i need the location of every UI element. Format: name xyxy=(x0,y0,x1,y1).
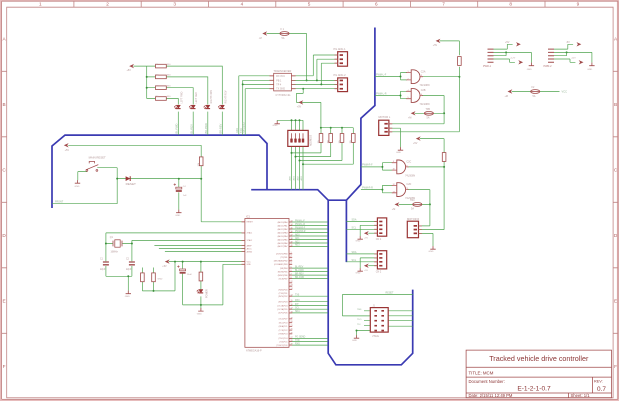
wire PWR1 +5V xyxy=(494,44,513,49)
wire CN1 +5V xyxy=(368,232,377,234)
svg-text:8: 8 xyxy=(509,2,512,7)
svg-text:7: 7 xyxy=(291,274,292,276)
supply arrow -5V PWR2 xyxy=(577,42,582,46)
resistor R1 xyxy=(156,64,167,68)
svg-text:ATMEGA16-P: ATMEGA16-P xyxy=(246,349,262,352)
svg-text:TXD: TXD xyxy=(295,340,300,342)
svg-text:Sheet: 1/1: Sheet: 1/1 xyxy=(571,393,591,398)
svg-text:4: 4 xyxy=(408,90,409,92)
supply arrow +12V PWR2 xyxy=(579,60,584,64)
wire resistor R3 to LED2 column xyxy=(147,88,194,105)
svg-text:RIGHT REV: RIGHT REV xyxy=(224,90,227,103)
svg-text:PWR-2: PWR-2 xyxy=(544,65,553,68)
svg-text:PG ANG 2: PG ANG 2 xyxy=(334,73,347,77)
svg-text:MOTOR L: MOTOR L xyxy=(379,115,391,119)
wire MOTOR R pin3 to ground xyxy=(419,233,434,246)
svg-text:GND: GND xyxy=(396,152,401,154)
svg-text:1uF: 1uF xyxy=(183,195,187,197)
svg-text:LEFT FWD: LEFT FWD xyxy=(180,91,183,103)
wire CN2 SCL xyxy=(346,261,377,263)
resistor R2 xyxy=(156,75,167,79)
svg-text:CYTXRX2.4G: CYTXRX2.4G xyxy=(276,94,291,97)
svg-text:SCL: SCL xyxy=(352,227,357,230)
gate C2D xyxy=(392,183,409,197)
bus: right riser xyxy=(346,28,375,201)
wire C4 cap to ground xyxy=(178,179,180,210)
connector CN2 xyxy=(374,251,386,269)
wire DIP common ground row xyxy=(277,120,303,130)
wire transceiver left row3 xyxy=(243,83,274,85)
svg-text:27: 27 xyxy=(291,337,293,339)
svg-text:BR-REV: BR-REV xyxy=(295,273,304,275)
svg-text:10: 10 xyxy=(393,169,395,171)
svg-text:AVCC: AVCC xyxy=(247,247,253,250)
svg-text:(TDI)PC5: (TDI)PC5 xyxy=(279,341,287,343)
svg-text:CN 1: CN 1 xyxy=(376,238,382,241)
svg-text:GND: GND xyxy=(429,251,434,253)
wire JTAG ground xyxy=(357,331,371,336)
svg-text:18: 18 xyxy=(291,311,293,313)
svg-text:TR5: TR5 xyxy=(426,108,431,111)
svg-text:36: 36 xyxy=(291,231,293,233)
svg-text:AREF: AREF xyxy=(247,244,253,247)
wire fuse TR5 xyxy=(415,112,444,114)
crystal Q1 xyxy=(113,240,122,247)
wire transceiver row1 to PG ANG 1 pin1 xyxy=(291,55,337,76)
wire PWR2 ground xyxy=(554,52,592,62)
svg-text:29: 29 xyxy=(291,344,293,346)
connector MOTOR R xyxy=(407,221,422,238)
svg-text:TR4: TR4 xyxy=(410,199,415,202)
svg-text:GND: GND xyxy=(175,215,180,217)
wire gate C2A output to MOTOR L pin3 xyxy=(389,77,460,132)
wire pull-up pair to rail xyxy=(142,262,175,291)
svg-text:BL-REV: BL-REV xyxy=(189,124,193,134)
svg-text:GND: GND xyxy=(75,186,80,188)
svg-text:19: 19 xyxy=(291,317,293,319)
svg-text:8: 8 xyxy=(406,165,407,167)
svg-text:5A: 5A xyxy=(533,95,536,98)
svg-text:6: 6 xyxy=(421,94,422,96)
svg-text:10uF: 10uF xyxy=(187,274,193,276)
svg-text:Document Number:: Document Number: xyxy=(469,379,505,384)
svg-text:JTAG: JTAG xyxy=(372,334,379,338)
svg-text:35: 35 xyxy=(291,227,293,229)
wire LED outputs to bus BL-FWD BL-REV BR-FWD BR-REV xyxy=(178,112,222,136)
svg-text:-M: -M xyxy=(259,37,262,40)
svg-text:(ADC0)PA0: (ADC0)PA0 xyxy=(278,221,288,224)
svg-text:(TXD)PD1: (TXD)PD1 xyxy=(279,293,288,295)
svg-text:RIGHT FWD: RIGHT FWD xyxy=(210,90,213,104)
svg-text:AD1: AD1 xyxy=(295,237,300,240)
wire PWR2 +12V xyxy=(554,59,575,62)
wire R8 power LED branch xyxy=(200,262,202,305)
svg-text:5: 5 xyxy=(291,267,292,269)
svg-text:TDI: TDI xyxy=(357,324,361,326)
resistor R3 xyxy=(156,86,167,90)
resistor R10 address pull-up 2 xyxy=(329,134,333,143)
svg-text:RESET: RESET xyxy=(247,222,254,224)
svg-text:PG SEND: PG SEND xyxy=(295,337,306,339)
svg-text:SDA: SDA xyxy=(352,219,357,222)
DIP switch S2 xyxy=(288,130,308,146)
wire resistor R4 to LED1 column xyxy=(147,99,179,105)
svg-text:(OC0/AIN1)PB3: (OC0/AIN1)PB3 xyxy=(274,263,287,266)
svg-text:+5V: +5V xyxy=(65,149,70,152)
svg-text:TX GND: TX GND xyxy=(276,89,285,91)
wire crystal taps xyxy=(106,243,132,245)
svg-text:5A: 5A xyxy=(427,117,430,120)
svg-text:POWER: POWER xyxy=(206,289,208,298)
svg-text:3: 3 xyxy=(421,75,422,77)
LED RIGHT REV xyxy=(218,105,225,109)
wire AVCC xyxy=(159,248,245,250)
svg-text:0.7: 0.7 xyxy=(597,386,606,393)
svg-text:11: 11 xyxy=(406,188,408,190)
svg-text:RESET: RESET xyxy=(386,292,395,295)
connector CN1 xyxy=(374,218,386,236)
svg-text:Tracked vehicle drive controll: Tracked vehicle drive controller xyxy=(489,354,589,363)
svg-text:(ICP1)PD6: (ICP1)PD6 xyxy=(278,313,287,315)
svg-text:INT: INT xyxy=(295,304,299,306)
IC2 AVR microcontroller xyxy=(242,219,293,348)
svg-text:GND: GND xyxy=(527,69,532,71)
wire +5V pull-up at C2A xyxy=(440,41,460,77)
svg-text:-5V: -5V xyxy=(566,41,570,44)
svg-text:+5V: +5V xyxy=(413,142,418,145)
svg-text:(OC1A)PD5: (OC1A)PD5 xyxy=(277,308,287,311)
svg-text:1: 1 xyxy=(291,252,292,254)
svg-text:9: 9 xyxy=(393,161,394,163)
resistor R13 C2A pull-up xyxy=(458,57,462,66)
connector PG ANG 2 xyxy=(335,78,348,92)
svg-text:2: 2 xyxy=(408,78,409,80)
svg-text:7: 7 xyxy=(442,2,445,7)
svg-text:(INT2/AIN0)PB2: (INT2/AIN0)PB2 xyxy=(274,260,288,263)
wire AGND xyxy=(165,251,245,253)
wire XTAL1 xyxy=(106,233,245,276)
svg-text:VCC: VCC xyxy=(247,261,252,263)
LED POWER xyxy=(197,290,204,294)
ground sym PWR1 xyxy=(529,63,534,66)
wire CN2 ground xyxy=(360,258,377,268)
svg-text:F: F xyxy=(3,364,6,369)
svg-text:TITLE: MCM: TITLE: MCM xyxy=(469,371,494,376)
svg-text:SDA: SDA xyxy=(352,251,357,254)
svg-text:6: 6 xyxy=(291,270,292,272)
svg-text:BL-FWD: BL-FWD xyxy=(174,123,178,133)
wire PWR1 pin3 xyxy=(494,52,507,55)
svg-text:28: 28 xyxy=(291,340,293,342)
wire XTAL2 xyxy=(132,240,245,276)
svg-text:(INT1)PD3: (INT1)PD3 xyxy=(278,302,287,304)
svg-text:39: 39 xyxy=(291,241,293,243)
wire crystal cap ground xyxy=(106,276,132,291)
ground sym PWR2 xyxy=(589,63,594,66)
wire RESET net to JTAG bus xyxy=(342,295,412,316)
svg-text:5A: 5A xyxy=(282,37,285,40)
ground sym power LED xyxy=(198,308,203,311)
svg-text:1: 1 xyxy=(408,71,409,73)
svg-text:4: 4 xyxy=(291,263,292,265)
svg-text:2: 2 xyxy=(291,256,292,258)
svg-text:(TDO)PC4: (TDO)PC4 xyxy=(278,338,287,340)
svg-text:TDO: TDO xyxy=(357,319,362,321)
svg-text:(MOSI)PB5: (MOSI)PB5 xyxy=(278,271,288,273)
wire gate C2C output to MOTOR R pin2 xyxy=(408,167,445,230)
bus: main left loop xyxy=(52,135,267,208)
svg-text:1: 1 xyxy=(39,2,42,7)
svg-text:37: 37 xyxy=(291,234,293,236)
svg-text:TRANSCEIVER: TRANSCEIVER xyxy=(274,70,292,73)
svg-text:38: 38 xyxy=(291,238,293,240)
wire gate C2B input PWM-L-R xyxy=(375,91,407,98)
wire CN2 SDA xyxy=(346,253,377,255)
title block xyxy=(466,350,611,398)
svg-text:(ADC2)PA2: (ADC2)PA2 xyxy=(278,228,288,231)
wire JTAG left stubs xyxy=(364,311,370,326)
LED LEFT FWD xyxy=(174,105,181,109)
wire CN1 ground xyxy=(360,225,377,236)
svg-text:GND: GND xyxy=(197,314,202,316)
svg-text:TX0: TX0 xyxy=(295,295,300,297)
svg-text:5A: 5A xyxy=(411,208,414,211)
connector PWR2 pins xyxy=(548,49,554,62)
svg-text:+M: +M xyxy=(408,117,411,120)
svg-text:5: 5 xyxy=(308,2,311,7)
junction dots reset row xyxy=(116,178,118,180)
resistor R6 pull-up xyxy=(141,273,145,282)
svg-text:BR-REV: BR-REV xyxy=(218,123,222,133)
svg-text:BR-FWD: BR-FWD xyxy=(295,277,305,279)
wire JTAG right rows to bus xyxy=(388,311,413,326)
svg-text:(INT0)PD2: (INT0)PD2 xyxy=(278,296,287,298)
svg-text:(ADC5)PA5: (ADC5)PA5 xyxy=(278,238,288,241)
svg-text:+M: +M xyxy=(505,95,508,98)
svg-text:+5V: +5V xyxy=(433,44,438,47)
fuse F1 xyxy=(280,32,289,36)
wire FRONT loop xyxy=(52,179,117,204)
svg-text:6: 6 xyxy=(375,2,378,7)
wire AVR GND pin xyxy=(223,264,245,305)
wire gate C2B output to MOTOR L pin1 xyxy=(389,96,444,124)
connector PWR1 pins xyxy=(488,49,494,62)
svg-text:26: 26 xyxy=(291,332,293,334)
svg-text:+5V: +5V xyxy=(364,238,368,240)
wire AVR PB rows to bus xyxy=(289,268,328,279)
switch S1 MAIN RESET xyxy=(86,162,98,172)
svg-text:GND: GND xyxy=(247,264,252,266)
svg-text:PWM-R-R: PWM-R-R xyxy=(362,186,373,189)
svg-text:ADDRESS: ADDRESS xyxy=(310,134,313,146)
supply arrow -M at F1 xyxy=(262,31,267,35)
resistor R5 reset pull-up xyxy=(199,157,203,166)
svg-text:GND: GND xyxy=(352,340,357,342)
svg-text:(XCK/T0)PB0: (XCK/T0)PB0 xyxy=(276,254,287,256)
svg-text:14: 14 xyxy=(291,295,293,297)
ground sym MOTOR L xyxy=(398,147,403,150)
svg-text:3: 3 xyxy=(173,2,176,7)
svg-text:20: 20 xyxy=(291,321,293,323)
svg-text:XTAL1: XTAL1 xyxy=(247,232,253,235)
svg-text:C2C: C2C xyxy=(406,161,411,164)
capacitor C1 xyxy=(103,262,109,265)
junction dots LED rail xyxy=(146,76,148,78)
wire C3 branch xyxy=(182,262,184,305)
wire pull-up resistor drops xyxy=(292,128,354,165)
wire +5V to LED resistor rail xyxy=(133,66,146,98)
wire VCC +5V row xyxy=(169,261,245,263)
svg-text:40: 40 xyxy=(291,245,293,247)
AVR pin numbers right xyxy=(291,220,293,345)
svg-text:GND: GND xyxy=(273,125,278,127)
svg-text:AD2: AD2 xyxy=(295,240,300,243)
svg-text:21: 21 xyxy=(291,325,293,327)
svg-text:AD0: AD0 xyxy=(295,233,300,236)
supply arrow +5V C2A xyxy=(436,39,441,43)
svg-text:RX0: RX0 xyxy=(295,300,300,302)
wire transceiver left row1 xyxy=(239,76,274,135)
wire PWR1 ground xyxy=(494,52,532,62)
svg-text:+5V: +5V xyxy=(162,265,167,268)
svg-text:RXD: RXD xyxy=(295,343,300,345)
svg-text:PWM-R-R: PWM-R-R xyxy=(295,231,306,233)
wire AVR PA rows to bus xyxy=(289,222,328,246)
svg-text:TMS: TMS xyxy=(357,309,362,311)
svg-text:CN 2: CN 2 xyxy=(376,271,382,274)
svg-text:(TMS)PC3: (TMS)PC3 xyxy=(278,334,287,336)
ground sym transceiver xyxy=(275,121,280,124)
wire gate C2C input PWM-R-F xyxy=(361,163,393,170)
wire AREF xyxy=(154,245,245,247)
resistor R4 xyxy=(156,97,167,101)
LED RIGHT FWD xyxy=(203,105,210,109)
svg-text:FRONT: FRONT xyxy=(55,200,64,203)
svg-text:16: 16 xyxy=(291,304,293,306)
svg-text:22: 22 xyxy=(291,281,293,283)
supply arrow +12V PWR1 xyxy=(518,60,523,64)
wire transceiver row4 to PG ANG 2 pin3 xyxy=(291,88,337,90)
wire +5V to C2C pull-up xyxy=(420,139,444,167)
svg-text:PWR-1: PWR-1 xyxy=(483,65,492,68)
supply arrow +5V reset xyxy=(64,143,69,147)
connector MOTOR L xyxy=(379,120,393,135)
svg-text:22pF: 22pF xyxy=(126,269,132,271)
wire PWR1 +12V xyxy=(494,59,515,62)
capacitor C3 electrolytic xyxy=(177,265,185,272)
svg-text:+5V: +5V xyxy=(505,41,510,44)
svg-text:GND: GND xyxy=(125,296,130,298)
svg-text:22pF: 22pF xyxy=(100,269,106,271)
gate pin numbers xyxy=(393,71,422,193)
connector PG ANG 1 xyxy=(335,52,348,66)
svg-text:VCC: VCC xyxy=(562,90,568,94)
svg-text:XTAL2: XTAL2 xyxy=(247,239,253,242)
supply arrow +5V CN1 xyxy=(364,231,369,235)
wire transceiver left row4 xyxy=(245,89,274,135)
svg-text:(SS)PB4: (SS)PB4 xyxy=(280,268,287,270)
wire gate C2D output to MOTOR R pin1 xyxy=(408,190,430,226)
supply arrow +5V C2C xyxy=(416,136,421,140)
svg-text:+12V: +12V xyxy=(510,57,516,59)
resistor R8 power LED xyxy=(199,272,203,281)
supply arrow +5V AVR VCC xyxy=(165,259,170,263)
svg-text:(RXD)PD0: (RXD)PD0 xyxy=(278,289,287,291)
svg-text:(ADC6)PA6: (ADC6)PA6 xyxy=(278,242,288,245)
svg-text:BL-FWD: BL-FWD xyxy=(295,270,304,272)
diode D1 RESET xyxy=(126,176,131,181)
svg-text:PG ANG 1: PG ANG 1 xyxy=(334,47,347,51)
wire +5V to reset pull-up R5 xyxy=(68,145,201,178)
svg-text:GND: GND xyxy=(587,69,592,71)
wire AVR PD rows to bus xyxy=(289,338,328,345)
svg-text:PWM-L-F: PWM-L-F xyxy=(295,220,305,222)
ground sym crystal xyxy=(126,291,131,294)
svg-text:RX-SEND: RX-SEND xyxy=(242,122,245,133)
ground sym reset switch xyxy=(75,180,80,183)
wire DIP outputs to bus AD0-AD3 xyxy=(292,146,304,189)
svg-text:(TCK)PC2: (TCK)PC2 xyxy=(279,330,288,332)
svg-text:34: 34 xyxy=(291,224,293,226)
svg-text:+5V: +5V xyxy=(297,105,302,108)
LED LEFT REV xyxy=(189,105,196,109)
AVR internal pin names xyxy=(247,222,254,267)
supply arrow +5V PWR1 xyxy=(516,42,521,46)
svg-text:LEFT REV: LEFT REV xyxy=(195,92,198,104)
svg-text:SCL: SCL xyxy=(295,308,300,310)
connector JTAG xyxy=(370,308,388,333)
bus: center horizontal collector xyxy=(251,190,413,365)
svg-text:IC1: IC1 xyxy=(246,215,251,218)
svg-text:F: F xyxy=(614,364,617,369)
svg-text:(OC1B)PD4: (OC1B)PD4 xyxy=(277,305,287,307)
svg-text:C2B: C2B xyxy=(421,89,426,92)
fuse TR4 xyxy=(413,203,422,207)
wire fuse TR4 xyxy=(399,203,430,205)
svg-text:Date: 2/15/11 12:49 PM: Date: 2/15/11 12:49 PM xyxy=(469,393,513,398)
svg-text:(ADC4)PA4: (ADC4)PA4 xyxy=(278,235,288,238)
supply arrow +5V LED bank xyxy=(129,64,134,68)
svg-text:BR-FWD: BR-FWD xyxy=(204,123,208,133)
svg-text:SDA: SDA xyxy=(295,310,300,313)
svg-text:GND: GND xyxy=(356,240,361,242)
wire DIP pull-up rail xyxy=(321,127,353,129)
svg-text:PB 1: PB 1 xyxy=(276,80,282,82)
gate C2C xyxy=(392,160,409,174)
wire resistor R2 to LED3 column xyxy=(147,77,208,105)
svg-text:+5V: +5V xyxy=(127,69,132,72)
svg-text:+M: +M xyxy=(392,208,395,211)
svg-text:(MISO)PB6: (MISO)PB6 xyxy=(278,275,288,277)
svg-text:23: 23 xyxy=(291,285,293,287)
supply arrow +5V CN2 xyxy=(364,264,369,268)
svg-text:(OC2)PD7: (OC2)PD7 xyxy=(279,319,288,321)
resistor R14 C2C pull-up xyxy=(442,153,446,162)
resistor R7 pull-up xyxy=(152,273,156,282)
svg-text:PWM-L-R: PWM-L-R xyxy=(295,224,305,226)
svg-text:25: 25 xyxy=(291,329,293,331)
AVR right net labels xyxy=(295,220,306,345)
supply arrow +5V transceiver xyxy=(298,100,303,104)
svg-text:74LS08N: 74LS08N xyxy=(420,84,430,87)
IC U1 transceiver xyxy=(270,73,296,91)
svg-text:(TOSC1)PC6: (TOSC1)PC6 xyxy=(276,345,287,347)
svg-text:PWM-R-F: PWM-R-F xyxy=(295,227,306,229)
wire PWR2 +5V xyxy=(554,44,573,49)
gate C2A xyxy=(406,70,423,84)
svg-text:TP 4: TP 4 xyxy=(276,85,282,87)
svg-text:RESET: RESET xyxy=(126,182,136,186)
